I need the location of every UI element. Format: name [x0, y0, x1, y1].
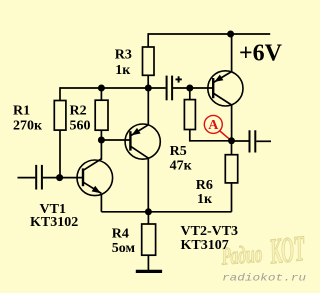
- svg-text:1к: 1к: [115, 63, 131, 78]
- svg-text:A: A: [208, 118, 219, 133]
- capacitor C1: [36, 165, 42, 190]
- wire R4 top stub: [147, 212, 149, 224]
- wire R1 top stub: [59, 87, 61, 100]
- capacitor C3: [250, 130, 256, 152]
- svg-text:radiokot.ru: radiokot.ru: [222, 273, 306, 285]
- capacitor C2: [167, 76, 173, 101]
- junction dot input node: [56, 174, 63, 181]
- junction dot C2-R5: [186, 85, 193, 92]
- wire R6 bottom lead: [231, 183, 233, 212]
- wire VT2 emitter riser: [147, 88, 149, 125]
- junction dot R2-rail: [98, 85, 105, 92]
- wire R2 top stub: [100, 88, 102, 100]
- svg-text:R3: R3: [115, 47, 132, 62]
- svg-text:КОТ: КОТ: [267, 228, 307, 272]
- wire R1 bottom lead: [59, 130, 61, 178]
- svg-text:R5: R5: [170, 144, 187, 159]
- svg-text:R6: R6: [196, 178, 213, 193]
- wire R4 bottom lead: [147, 255, 149, 270]
- wire VT2 collector drop: [147, 158, 149, 212]
- wire R3 bottom stub: [147, 75, 149, 88]
- wire VT3 collector drop: [231, 105, 233, 141]
- resistor R2: [95, 100, 108, 130]
- wire C2 to VT3 base: [173, 87, 213, 89]
- transistor VT2: [125, 124, 160, 159]
- svg-text:KT3102: KT3102: [30, 215, 78, 230]
- resistor R3: [143, 47, 155, 75]
- junction dot top rail: [227, 31, 234, 38]
- wire C1 to VT1 base: [43, 177, 83, 179]
- svg-text:VT2-VT3: VT2-VT3: [181, 224, 239, 239]
- wire C3 output stub: [256, 140, 271, 142]
- svg-text:1к: 1к: [197, 192, 213, 207]
- watermark Радио КОТ: [220, 228, 308, 272]
- wire R6 top stub: [231, 141, 233, 155]
- junction dot output node: [228, 137, 235, 144]
- wire bias rail: [60, 87, 166, 89]
- wire VT2 base: [101, 139, 129, 141]
- svg-text:KT3107: KT3107: [181, 238, 229, 253]
- wire VT1 emitter drop: [100, 194, 102, 212]
- svg-text:R1: R1: [13, 104, 30, 119]
- wire R2 bottom lead: [100, 130, 102, 160]
- svg-text:270к: 270к: [13, 119, 43, 134]
- wire +6V top rail: [148, 33, 270, 35]
- ground: [136, 270, 162, 273]
- node A: [204, 115, 230, 139]
- resistor R5: [184, 100, 195, 130]
- junction dot R4 node: [145, 208, 152, 215]
- resistor R6: [225, 155, 237, 183]
- transistor VT3: [208, 71, 243, 106]
- resistor R1: [54, 101, 66, 131]
- wire R5 top stub: [189, 88, 191, 100]
- wire input stub: [18, 177, 36, 179]
- svg-text:+6V: +6V: [239, 40, 283, 66]
- svg-text:560: 560: [70, 119, 91, 134]
- capacitor C2 plus sign: [176, 76, 182, 82]
- svg-text:5ом: 5ом: [112, 241, 136, 256]
- junction dot R3-rail: [145, 85, 152, 92]
- wire R3 top stub: [147, 33, 149, 47]
- svg-text:R2: R2: [70, 104, 87, 119]
- wire R5 bottom lead: [190, 130, 232, 141]
- transistor VT1: [77, 159, 113, 196]
- wire emitter bottom rail: [101, 211, 231, 213]
- svg-text:R4: R4: [112, 227, 129, 242]
- junction dot VT1 collector node: [98, 137, 105, 144]
- wire VT3 emitter riser: [231, 34, 233, 72]
- resistor R4: [142, 224, 156, 255]
- wire output node to C3: [232, 140, 249, 142]
- svg-text:47к: 47к: [170, 159, 193, 174]
